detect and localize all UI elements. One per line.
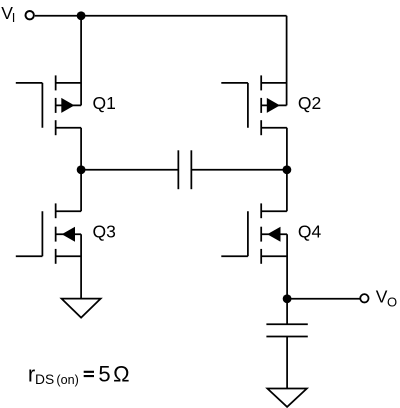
wire to VO terminal [287, 298, 360, 300]
node VO terminal [360, 294, 368, 302]
wire Q1 drain vertical [80, 16, 82, 106]
wire Q2 drain vertical [286, 16, 288, 106]
junction dot node VO [283, 294, 292, 303]
node VI terminal [26, 11, 34, 19]
wire Q2 source to node B [286, 128, 288, 212]
label VO [376, 287, 397, 310]
ground (left) [62, 299, 101, 318]
svg-text:Ω: Ω [113, 361, 129, 386]
junction dot top [77, 11, 86, 20]
svg-text:Q2: Q2 [298, 93, 321, 113]
wire node A to capacitor [81, 169, 178, 171]
capacitor C2 [266, 324, 307, 336]
svg-text:5: 5 [98, 361, 110, 386]
transistor Q1 [16, 75, 81, 135]
svg-text:Q4: Q4 [298, 222, 322, 242]
label rDS(on) = 5 ohm [28, 361, 130, 387]
transistor Q2 [221, 75, 287, 135]
ground (right) [267, 389, 307, 407]
wire top rail [35, 15, 287, 17]
wire Q1 source to node A [80, 128, 82, 212]
svg-text:Q3: Q3 [93, 222, 116, 242]
svg-text:(on): (on) [56, 373, 78, 387]
transistor Q4 [221, 203, 287, 263]
wire Q3 source to ground [80, 234, 82, 298]
junction dot node A [77, 165, 86, 174]
wire Q4 source down [286, 234, 288, 324]
wire capacitor to ground [286, 337, 288, 389]
capacitor C1 [178, 150, 191, 189]
svg-text:V: V [376, 287, 388, 307]
transistor Q3 [16, 203, 81, 263]
svg-text:DS: DS [35, 372, 54, 387]
svg-text:I: I [12, 10, 16, 25]
wire capacitor to node B [191, 169, 287, 171]
label VI [1, 3, 15, 25]
junction dot node B [283, 165, 292, 174]
svg-text:O: O [387, 295, 397, 310]
svg-text:Q1: Q1 [93, 93, 116, 113]
